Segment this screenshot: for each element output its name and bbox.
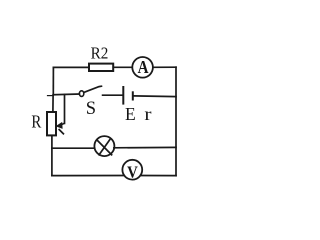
switch S xyxy=(79,86,101,96)
rheostat wiper arrow xyxy=(56,122,65,134)
svg-text:V: V xyxy=(127,164,138,182)
battery cell E r xyxy=(123,86,133,105)
svg-text:S: S xyxy=(86,99,96,119)
svg-text:A: A xyxy=(138,57,149,77)
wire top row ammeter to corner xyxy=(153,66,176,68)
voltmeter U:V xyxy=(122,160,142,182)
wire rheostat bottom to corner xyxy=(51,135,53,175)
wire switch to battery xyxy=(103,94,123,96)
resistor R2 xyxy=(89,64,113,71)
lamp L xyxy=(94,136,114,156)
wire left junction to rheostat top xyxy=(52,95,54,112)
wire left vertical upper xyxy=(52,67,54,94)
svg-text:E: E xyxy=(125,104,136,124)
wire top row R2 to ammeter xyxy=(113,66,132,68)
node junction tick xyxy=(48,95,54,97)
wire top row left segment xyxy=(53,66,88,68)
wire lamp row right xyxy=(114,146,176,148)
svg-text:R2: R2 xyxy=(91,45,109,63)
wire battery to right xyxy=(134,95,176,98)
wire right vertical xyxy=(175,67,177,176)
ammeter U:A xyxy=(132,57,153,78)
wire wiper branch vertical xyxy=(64,95,66,124)
svg-text:r: r xyxy=(144,106,152,125)
rheostat R body xyxy=(47,112,56,135)
wire row2 left to switch xyxy=(53,93,79,96)
wire bottom row left xyxy=(52,175,124,177)
svg-text:R: R xyxy=(31,112,41,131)
wire lamp row left xyxy=(52,147,95,149)
wire bottom row right xyxy=(141,175,176,177)
